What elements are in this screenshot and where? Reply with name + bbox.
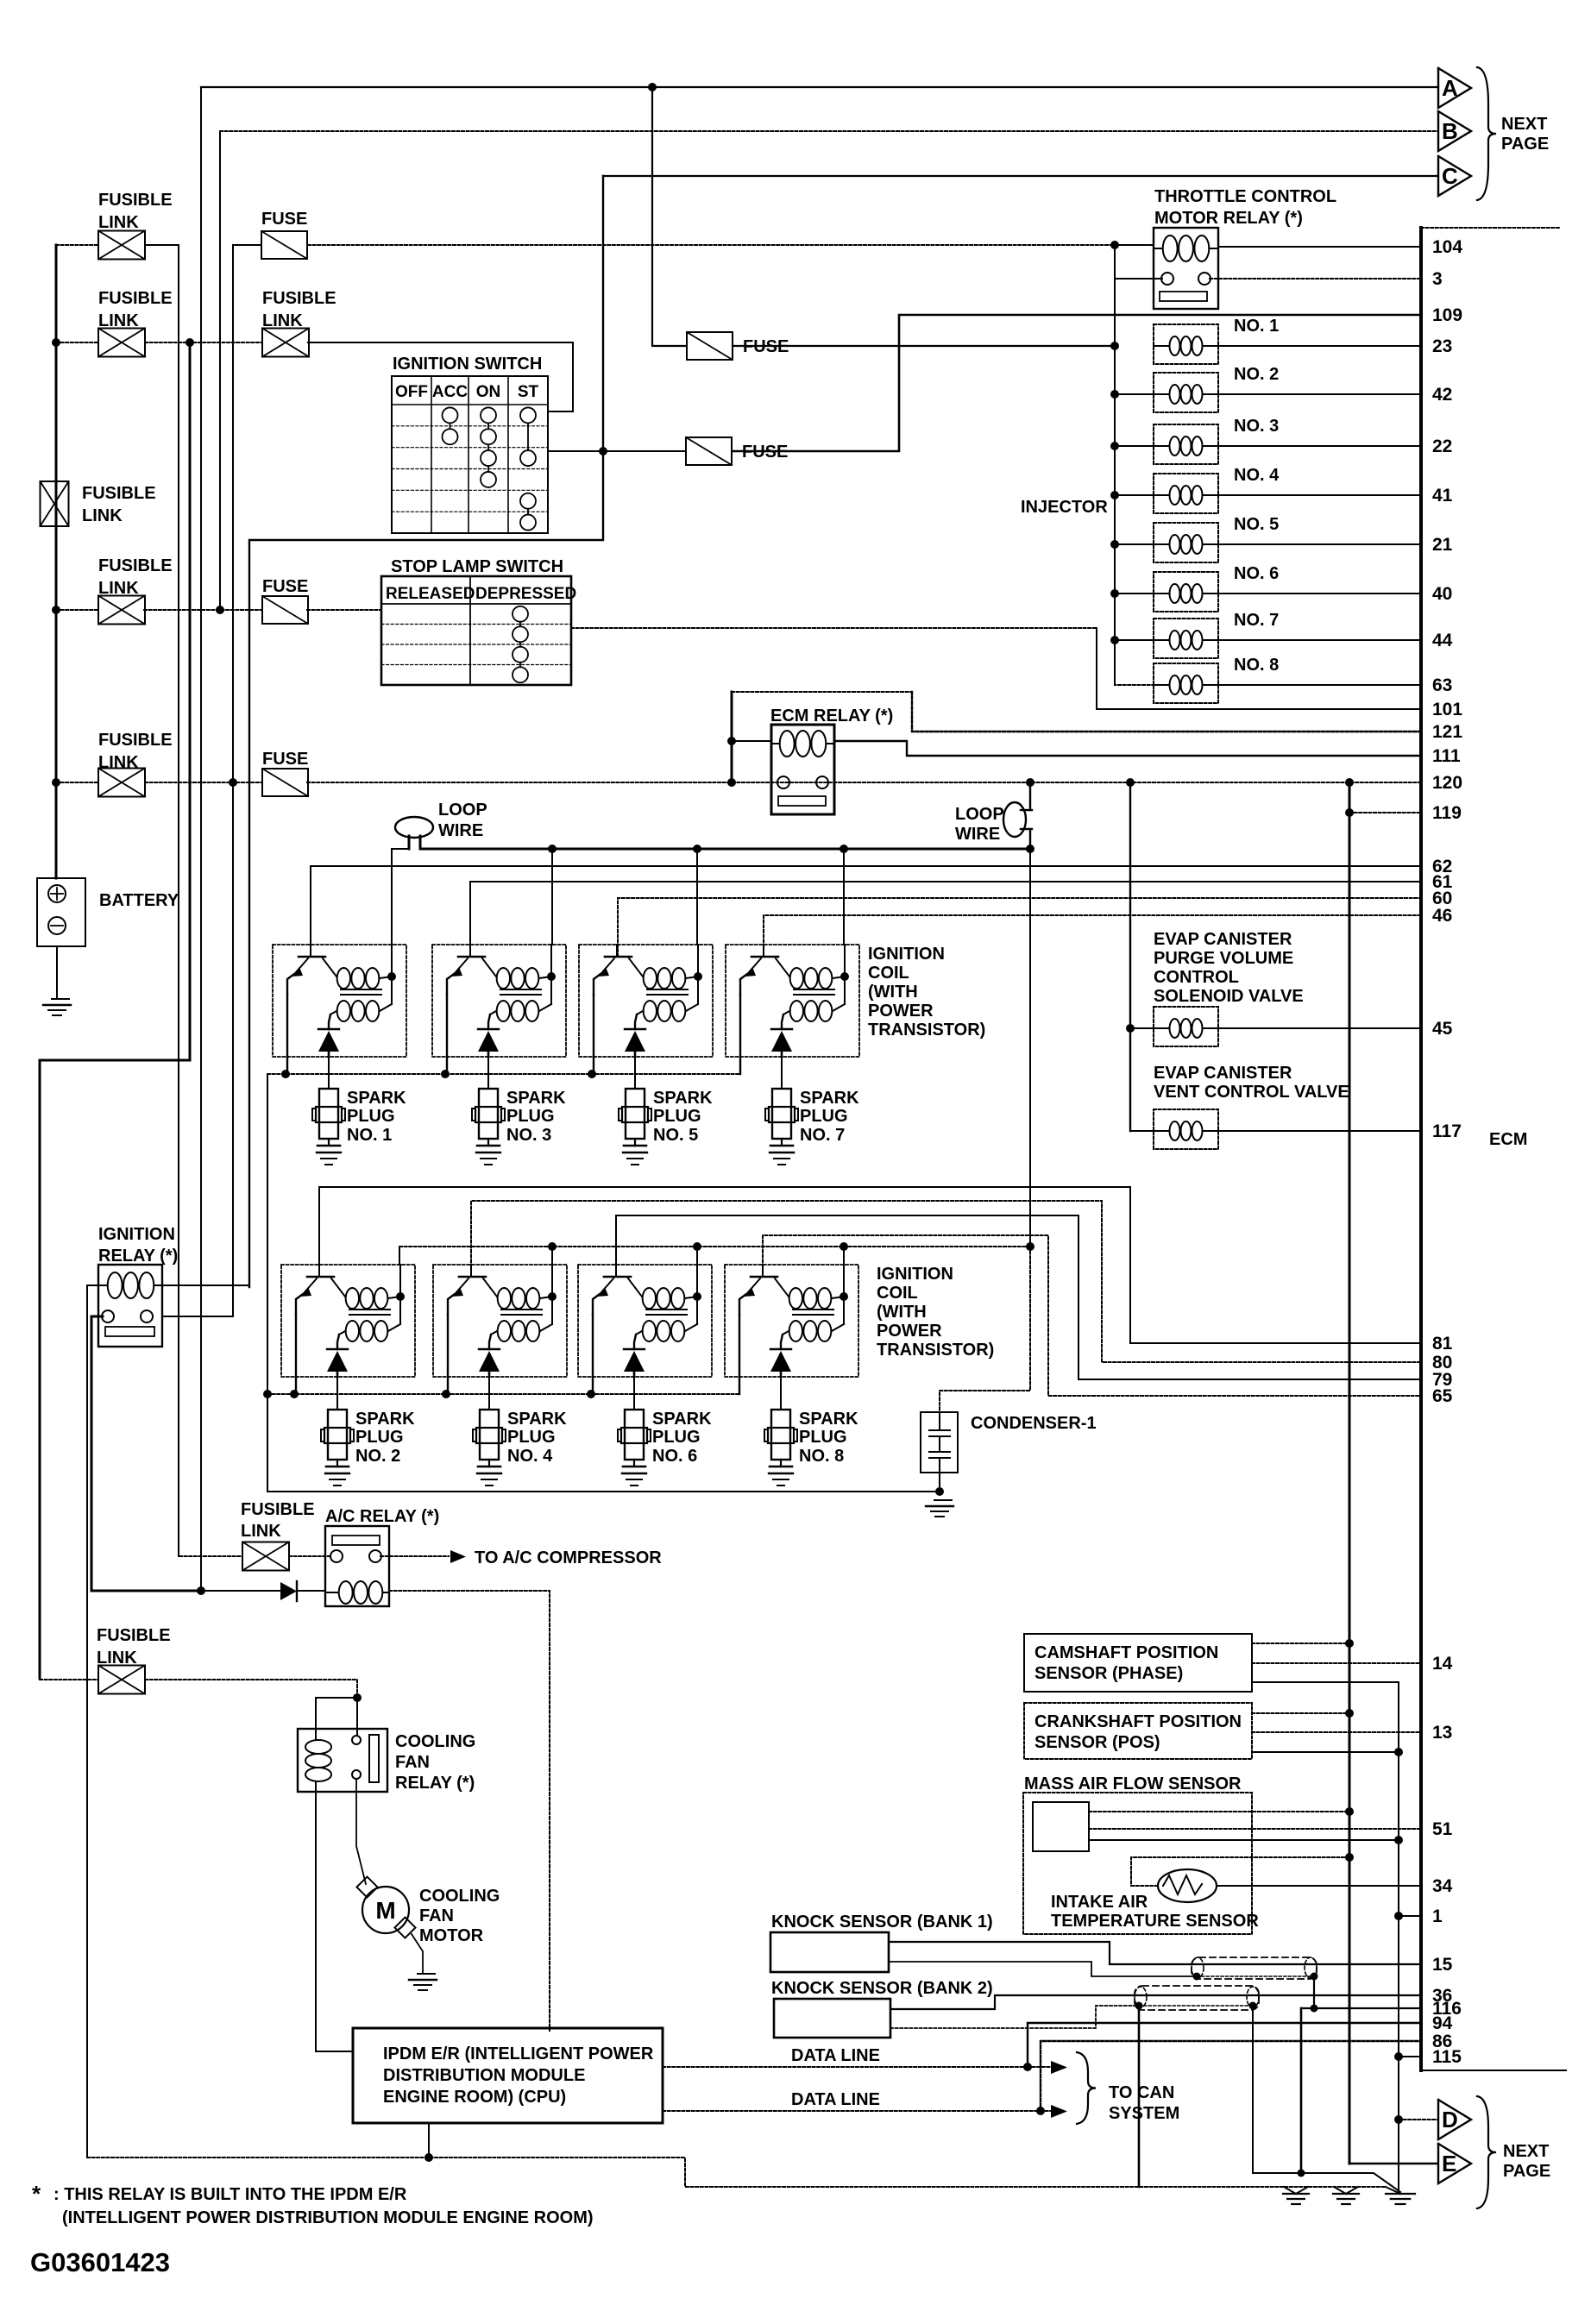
shield S2 <box>1135 1986 1259 2010</box>
svg-text:IGNITION: IGNITION <box>868 945 945 964</box>
spark plug NO. 8 <box>771 1410 790 1460</box>
spark plug NO. 5 <box>626 1089 645 1139</box>
svg-text:SENSOR (PHASE): SENSOR (PHASE) <box>1034 1664 1183 1683</box>
wire D arrow feed <box>1399 2119 1438 2120</box>
wire F1 output row y284 to injector bus <box>308 244 1115 246</box>
svg-text:IGNITION: IGNITION <box>98 1225 175 1244</box>
wire crankshaft signal to ECM pin 13 <box>1252 1731 1421 1733</box>
fuse F3 <box>686 437 732 465</box>
wire K2 coil-left loop to ECM pin 121 <box>731 692 733 741</box>
svg-text:IPDM E/R (INTELLIGENT POWER: IPDM E/R (INTELLIGENT POWER <box>383 2044 654 2063</box>
ignition coil IC4 (with power transistor) <box>433 1265 567 1377</box>
svg-text:PLUG: PLUG <box>506 1107 555 1126</box>
wire injector NO. 3 to ECM pin 22 <box>1218 445 1421 447</box>
wire ECM pin 80 to coil IC4 base <box>471 1201 1421 1362</box>
wire camshaft ground to sensor-ground bus <box>1252 1682 1399 2194</box>
wire A/C relay contact to compressor arrow <box>380 1555 449 1557</box>
wire FL5 to ignition switch input <box>308 342 573 411</box>
ground below battery <box>52 998 69 1000</box>
svg-text:14: 14 <box>1432 1654 1453 1674</box>
wire loop W2 drop x1194 to row2 supply bus <box>1029 849 1031 1247</box>
wire knock2 signal to ECM pin 36 <box>890 1995 1421 2009</box>
wire EVAP purge to ECM pin 45 <box>1218 1027 1421 1029</box>
svg-text:A/C RELAY (*): A/C RELAY (*) <box>325 1507 439 1526</box>
svg-text:NO. 1: NO. 1 <box>347 1126 392 1145</box>
ignition coil IC8 (with power transistor) <box>725 1265 858 1377</box>
next-page arrow E <box>1438 2144 1471 2183</box>
wire crankshaft ground <box>1252 1751 1399 1753</box>
wire ECM pin 116 line <box>1301 2007 1421 2009</box>
spark plug NO. 1 <box>319 1089 338 1139</box>
ignition coil IC3 (with power transistor) <box>432 945 566 1057</box>
shield S1 <box>1192 1957 1317 1979</box>
wire shield1 drain to pin116 line <box>1313 1976 1315 2008</box>
svg-text:NO. 5: NO. 5 <box>653 1126 698 1145</box>
svg-text:B: B <box>1442 118 1458 144</box>
wire thick battery branch x220 down to y1229 then left to x46 <box>40 342 190 1678</box>
CAN arrow 2 <box>1051 2105 1067 2118</box>
wire pin116 shield drain down to ground line <box>1300 2008 1303 2173</box>
svg-text:PLUG: PLUG <box>507 1428 556 1447</box>
svg-text:*: * <box>32 2181 41 2207</box>
wire FL7 to cooling fan relay <box>145 1680 357 1698</box>
svg-text:KNOCK SENSOR (BANK 1): KNOCK SENSOR (BANK 1) <box>771 1913 993 1931</box>
svg-text:BATTERY: BATTERY <box>99 891 179 910</box>
cooling fan relay K5 <box>298 1729 387 1792</box>
wire net-A top line to arrow A <box>201 86 1438 88</box>
svg-text:23: 23 <box>1432 336 1452 356</box>
wire ECM pin 60 to coil IC5 base <box>618 898 1421 957</box>
svg-text:NO. 2: NO. 2 <box>355 1447 400 1466</box>
brace next page (bottom) <box>1477 2096 1496 2208</box>
svg-text:SPARK: SPARK <box>347 1089 406 1108</box>
svg-text:TRANSISTOR): TRANSISTOR) <box>877 1341 994 1360</box>
spark plug NO. 3 <box>479 1089 498 1139</box>
svg-text:NO. 2: NO. 2 <box>1234 365 1279 384</box>
fuse F2 <box>687 332 733 360</box>
wire knock1 signal to ECM pin 15 <box>889 1942 1421 1964</box>
svg-text:SPARK: SPARK <box>653 1089 713 1108</box>
wire EVAP vent to ECM pin 117 <box>1218 1130 1421 1132</box>
wire A/C relay coil to IPDM <box>389 1591 550 2031</box>
svg-text:115: 115 <box>1432 2047 1462 2067</box>
ECM connector outline <box>1419 228 1423 2070</box>
wire battery negative to ground <box>56 946 58 999</box>
svg-text:104: 104 <box>1432 237 1462 257</box>
spark plug NO. 6 <box>625 1410 644 1460</box>
svg-text:101: 101 <box>1432 700 1462 719</box>
svg-text:DEPRESSED: DEPRESSED <box>475 585 576 603</box>
wire to ECM pin 119 <box>1349 812 1421 813</box>
ground G2 (sensor shield ground) <box>1334 2187 1346 2194</box>
wire coil IC8 to spark plug NO. 8 <box>780 1377 782 1410</box>
IPDM E/R box <box>353 2028 663 2123</box>
wire stop lamp switch output to ECM pin 101 <box>571 627 1097 629</box>
svg-text:NO. 5: NO. 5 <box>1234 515 1279 534</box>
svg-text:NO. 4: NO. 4 <box>507 1447 553 1466</box>
svg-text:IGNITION SWITCH: IGNITION SWITCH <box>393 355 542 374</box>
svg-text:1: 1 <box>1432 1906 1443 1926</box>
svg-text:SPARK: SPARK <box>506 1089 566 1108</box>
ignition coil IC6 (with power transistor) <box>578 1265 712 1377</box>
svg-text:EVAP CANISTER: EVAP CANISTER <box>1154 1064 1292 1083</box>
wire K2 coil-right to ECM pin 111 <box>834 741 1421 756</box>
wire IPDM data line 1 (CAN-H) <box>663 2066 1028 2068</box>
svg-text:TRANSISTOR): TRANSISTOR) <box>868 1021 985 1040</box>
wire K1 contact to ECM pin 3 <box>1210 278 1421 280</box>
svg-text:ON: ON <box>476 383 501 401</box>
next-page arrow B <box>1438 111 1471 151</box>
svg-text:FUSIBLE: FUSIBLE <box>262 289 336 308</box>
wire cooling fan relay contact to motor <box>356 1779 366 1884</box>
wire knock1 return to shield <box>889 1962 1197 1976</box>
svg-text:NO. 6: NO. 6 <box>652 1447 697 1466</box>
svg-text:FUSIBLE: FUSIBLE <box>97 1626 171 1645</box>
svg-text:RELAY (*): RELAY (*) <box>395 1774 475 1793</box>
svg-text:COOLING: COOLING <box>419 1887 500 1906</box>
wire net-A vertical x233 <box>200 87 202 1591</box>
svg-text:CONTROL: CONTROL <box>1154 968 1239 987</box>
svg-text:PLUG: PLUG <box>652 1428 701 1447</box>
wire data line 1 riser to ECM pin 94 <box>1028 2023 1421 2067</box>
svg-text:DATA LINE: DATA LINE <box>791 2090 880 2109</box>
wire coil ground line y1729 <box>267 1491 940 1492</box>
svg-text:ST: ST <box>518 383 539 401</box>
svg-text:FUSIBLE: FUSIBLE <box>98 556 173 575</box>
spark plug NO. 2 <box>328 1410 347 1460</box>
brace next page (top) <box>1477 67 1496 200</box>
wire K1 contact left feed <box>1115 278 1162 280</box>
spark plug NO. 7 <box>772 1089 791 1139</box>
wire camshaft supply <box>1252 1643 1349 1644</box>
svg-text:FUSE: FUSE <box>262 577 308 596</box>
EVAP canister vent control valve <box>1154 1109 1218 1149</box>
wire ignition coil supply bus row1 y984 <box>420 848 1030 851</box>
wire crankshaft supply <box>1252 1712 1349 1714</box>
svg-text:FUSIBLE: FUSIBLE <box>98 289 173 308</box>
next-page arrow C <box>1438 156 1471 196</box>
wire injector NO. 6 to ECM pin 40 <box>1218 593 1421 594</box>
svg-text:TEMPERATURE SENSOR: TEMPERATURE SENSOR <box>1051 1912 1259 1931</box>
svg-text:COOLING: COOLING <box>395 1732 475 1751</box>
svg-text:NO. 1: NO. 1 <box>1234 317 1279 336</box>
wire bottom ground rail <box>87 2158 1386 2187</box>
svg-text:121: 121 <box>1432 722 1462 742</box>
wire supply bus row2 y1445 <box>399 1246 1030 1247</box>
svg-text:NO. 3: NO. 3 <box>506 1126 551 1145</box>
svg-text:RELAY (*): RELAY (*) <box>98 1247 178 1266</box>
svg-text:NEXT: NEXT <box>1501 115 1547 134</box>
wire cooling fan relay coil to IPDM left edge <box>316 1792 353 2051</box>
svg-text:PLUG: PLUG <box>653 1107 701 1126</box>
svg-text:NO. 6: NO. 6 <box>1234 564 1279 583</box>
svg-text:EVAP CANISTER: EVAP CANISTER <box>1154 930 1292 949</box>
svg-text:NO. 4: NO. 4 <box>1234 466 1280 485</box>
svg-text:34: 34 <box>1432 1876 1453 1896</box>
svg-text:3: 3 <box>1432 269 1443 289</box>
svg-text:FUSE: FUSE <box>261 210 307 229</box>
svg-text:LINK: LINK <box>98 753 139 772</box>
svg-text:THROTTLE CONTROL: THROTTLE CONTROL <box>1154 187 1336 206</box>
svg-text:TO A/C COMPRESSOR: TO A/C COMPRESSOR <box>475 1548 662 1567</box>
svg-text:15: 15 <box>1432 1955 1453 1975</box>
wire IAT supply loop <box>1131 1857 1349 1886</box>
diode D1 <box>201 1590 280 1592</box>
ignition coil IC2 (with power transistor) <box>281 1265 415 1377</box>
wire knock2 return to shield2 <box>890 2006 1139 2028</box>
CAN arrow 1 <box>1051 2061 1067 2074</box>
wire injector NO. 1 to ECM pin 23 <box>1218 345 1421 347</box>
svg-text:G03601423: G03601423 <box>30 2247 170 2277</box>
wire camshaft signal to ECM pin 14 <box>1252 1662 1421 1664</box>
svg-text:51: 51 <box>1432 1819 1453 1839</box>
wire ignition relay contact left to A/C relay coil <box>91 1316 201 1591</box>
svg-text:LOOP: LOOP <box>438 801 487 820</box>
wire ECM pin 81 to coil IC2 base <box>319 1187 1421 1343</box>
wire ECM pin 46 to coil IC7 base <box>764 915 1421 957</box>
svg-text:NO. 8: NO. 8 <box>1234 656 1279 675</box>
wire coil supply drops row2 <box>399 1247 400 1265</box>
svg-text:WIRE: WIRE <box>438 821 483 840</box>
wire data line 2 riser to ECM pin 86 <box>1041 2041 1421 2111</box>
wire net-B top line to arrow B <box>220 130 1438 132</box>
wire net-B vertical x255 <box>219 131 221 610</box>
wire FL3 output row y707 <box>144 609 262 611</box>
svg-text:INTAKE AIR: INTAKE AIR <box>1051 1893 1148 1912</box>
svg-text:(INTELLIGENT POWER DISTRIBUTIO: (INTELLIGENT POWER DISTRIBUTION MODULE E… <box>62 2208 594 2227</box>
svg-text:94: 94 <box>1432 2013 1453 2033</box>
svg-text:SPARK: SPARK <box>652 1410 712 1429</box>
wire IAT signal to ECM pin 34 <box>1217 1885 1421 1887</box>
ground below motor <box>418 1973 435 1975</box>
svg-text:PLUG: PLUG <box>800 1107 848 1126</box>
svg-text:PLUG: PLUG <box>799 1428 847 1447</box>
svg-text:SPARK: SPARK <box>799 1410 858 1429</box>
svg-text:CAMSHAFT POSITION: CAMSHAFT POSITION <box>1034 1643 1218 1662</box>
wire ECM pin 115 to sensor ground bus <box>1399 2056 1421 2057</box>
svg-text:SENSOR (POS): SENSOR (POS) <box>1034 1733 1160 1752</box>
wire net-A drop x756 to fuse F2 <box>652 87 687 346</box>
ground below condenser <box>934 1499 952 1501</box>
injector NO. 4 <box>1154 474 1218 513</box>
svg-text:POWER: POWER <box>877 1322 942 1341</box>
svg-text:TO CAN: TO CAN <box>1109 2083 1174 2102</box>
next-page arrow D <box>1438 2100 1471 2139</box>
svg-text:FUSIBLE: FUSIBLE <box>82 484 156 503</box>
wire battery positive bus (left vertical) <box>55 245 58 878</box>
svg-text:41: 41 <box>1432 486 1453 506</box>
wire injector NO. 4 to ECM pin 41 <box>1218 494 1421 496</box>
condenser C1 <box>921 1412 958 1473</box>
wire E arrow feed from sensor bus x1564 <box>1349 2163 1437 2164</box>
wire ignition relay contact right feed <box>162 1316 233 1317</box>
svg-text:63: 63 <box>1432 675 1452 695</box>
wire ECM pin 1 to sensor ground bus <box>1399 1915 1421 1917</box>
EVAP canister purge volume control solenoid valve <box>1154 1007 1218 1046</box>
wire ignition switch output to fuse F3 <box>548 450 686 452</box>
svg-text:ECM RELAY (*): ECM RELAY (*) <box>770 707 893 725</box>
svg-text:46: 46 <box>1432 906 1452 926</box>
svg-text:CRANKSHAFT POSITION: CRANKSHAFT POSITION <box>1034 1712 1242 1731</box>
svg-text:SYSTEM: SYSTEM <box>1109 2104 1179 2123</box>
wire shield2 left drain down to ground rail <box>1138 2006 1141 2187</box>
wire net-C top line to arrow C <box>603 175 1438 177</box>
wire ignition switch ON branch x699 down to ignition relay coil feed <box>249 176 603 1287</box>
svg-text:DISTRIBUTION MODULE: DISTRIBUTION MODULE <box>383 2066 585 2085</box>
wire coil IC1 to spark plug NO. 1 <box>328 1057 330 1089</box>
wire ignition relay coil right feed <box>162 1284 249 1286</box>
wire coil IC7 to spark plug NO. 7 <box>781 1057 783 1089</box>
svg-text:COIL: COIL <box>868 964 909 983</box>
svg-text:A: A <box>1442 75 1458 101</box>
svg-text:NO. 7: NO. 7 <box>800 1126 845 1145</box>
svg-text:42: 42 <box>1432 385 1452 405</box>
svg-text:FUSIBLE: FUSIBLE <box>98 191 173 210</box>
wire coil IC3 to spark plug NO. 3 <box>487 1057 489 1089</box>
ignition coil IC5 (with power transistor) <box>579 945 713 1057</box>
next-page arrow A <box>1438 68 1471 108</box>
svg-text:13: 13 <box>1432 1723 1452 1743</box>
intake air temperature sensor RT1 <box>1158 1869 1217 1902</box>
wire ignition relay coil left down to bottom rail <box>87 1285 98 2158</box>
svg-text:44: 44 <box>1432 631 1453 650</box>
wire FL2 output row y397 <box>145 342 262 343</box>
wire row2 supply to condenser-1 <box>940 1247 1030 1412</box>
wire injector NO. 7 to ECM pin 44 <box>1218 639 1421 641</box>
svg-text:POWER: POWER <box>868 1002 934 1021</box>
svg-text:ECM: ECM <box>1489 1130 1527 1149</box>
svg-text:NO. 8: NO. 8 <box>799 1447 844 1466</box>
svg-text:22: 22 <box>1432 437 1452 456</box>
wire ECM pin 61 to coil IC3 base <box>470 882 1421 957</box>
svg-text:SPARK: SPARK <box>355 1410 415 1429</box>
crankshaft position sensor <box>1024 1703 1252 1759</box>
svg-text:109: 109 <box>1432 305 1462 325</box>
svg-text:VENT CONTROL VALVE: VENT CONTROL VALVE <box>1154 1083 1349 1102</box>
battery BAT <box>37 878 85 946</box>
wire IPDM data line 2 (CAN-L) <box>663 2110 1041 2112</box>
svg-text:WIRE: WIRE <box>955 825 1000 844</box>
wire F1 feed from ignition relay vertical x270 <box>233 245 261 1316</box>
svg-text:C: C <box>1442 163 1458 189</box>
injector NO. 5 <box>1154 523 1218 562</box>
svg-text:DATA LINE: DATA LINE <box>791 2046 880 2065</box>
ignition coil IC1 (with power transistor) <box>273 945 406 1057</box>
wire K1 coil to ECM pin 104 <box>1218 246 1421 248</box>
svg-text:IGNITION: IGNITION <box>877 1265 953 1284</box>
svg-text:MOTOR RELAY (*): MOTOR RELAY (*) <box>1154 209 1303 228</box>
wire motor to ground <box>412 1934 423 1974</box>
wire supply vertical to EVAP bus x1310 <box>1129 782 1131 1131</box>
svg-text:E: E <box>1442 2151 1456 2176</box>
wire injector NO. 8 to ECM pin 63 <box>1218 684 1421 686</box>
spark plug NO. 4 <box>480 1410 499 1460</box>
wire shield2 right drain to ground <box>1253 2006 1400 2192</box>
svg-text:65: 65 <box>1432 1386 1453 1406</box>
wire FL4 output row y907 <box>145 782 262 783</box>
svg-text:PLUG: PLUG <box>347 1107 395 1126</box>
svg-text:(WITH: (WITH <box>868 983 918 1002</box>
svg-text:SOLENOID VALVE: SOLENOID VALVE <box>1154 987 1304 1006</box>
injector NO. 8 <box>1154 663 1218 703</box>
wire injector bus stub to NO. 8 <box>1115 640 1154 685</box>
wire emitter bus row2 y1616 <box>267 1393 738 1395</box>
svg-text:40: 40 <box>1432 584 1452 604</box>
wire coil IC6 to spark plug NO. 6 <box>633 1377 635 1410</box>
wire coil IC4 to spark plug NO. 4 <box>488 1377 490 1410</box>
wire injector NO. 2 to ECM pin 42 <box>1218 393 1421 395</box>
wire K1 coil left feed <box>1115 244 1154 246</box>
svg-text:45: 45 <box>1432 1019 1453 1039</box>
svg-text:FUSIBLE: FUSIBLE <box>241 1500 315 1519</box>
svg-text:D: D <box>1442 2107 1458 2132</box>
wire MAF ground <box>1089 1839 1399 1841</box>
wire injector bus x1292 <box>1114 245 1116 685</box>
ground G1 (shield ground) <box>1284 2187 1296 2194</box>
svg-text:FUSIBLE: FUSIBLE <box>98 731 173 750</box>
camshaft position sensor <box>1024 1634 1252 1692</box>
svg-text:119: 119 <box>1432 803 1462 823</box>
svg-text:81: 81 <box>1432 1334 1453 1354</box>
svg-text:ACC: ACC <box>432 383 468 401</box>
svg-text:NO. 7: NO. 7 <box>1234 611 1279 630</box>
fusible link FLV (vertical, battery) <box>41 481 69 526</box>
svg-text:PURGE VOLUME: PURGE VOLUME <box>1154 949 1293 968</box>
svg-text:117: 117 <box>1432 1121 1462 1141</box>
wire emitter bus row1 y1245 <box>267 1073 739 1075</box>
injector NO. 6 <box>1154 572 1218 612</box>
svg-text:21: 21 <box>1432 535 1453 555</box>
ground G3 (ECM sensor ground) <box>1386 2187 1400 2194</box>
wire ECM pin 65 to coil IC8 base <box>763 1235 1421 1396</box>
wire injector NO. 5 to ECM pin 21 <box>1218 543 1421 545</box>
svg-text:OFF: OFF <box>395 383 428 401</box>
svg-text:STOP LAMP SWITCH: STOP LAMP SWITCH <box>391 557 563 576</box>
wire coil IC2 to spark plug NO. 2 <box>336 1377 338 1410</box>
svg-text:111: 111 <box>1432 746 1461 766</box>
wire F3 output to ECM pin 109 <box>733 315 1421 451</box>
injector NO. 2 <box>1154 373 1218 412</box>
wire condenser to ground line y1729 <box>939 1473 940 1492</box>
svg-text:RELEASED: RELEASED <box>386 585 475 603</box>
wire FL1 output to net-C vertical <box>145 245 179 1556</box>
wire MAF supply <box>1089 1811 1349 1812</box>
wire IPDM bottom to ground rail <box>428 2123 430 2158</box>
svg-text:COIL: COIL <box>877 1284 918 1303</box>
svg-text:NO. 3: NO. 3 <box>1234 417 1279 436</box>
injector NO. 1 <box>1154 324 1218 364</box>
svg-text:ENGINE ROOM) (CPU): ENGINE ROOM) (CPU) <box>383 2088 566 2107</box>
svg-text:MASS AIR FLOW SENSOR: MASS AIR FLOW SENSOR <box>1024 1774 1242 1793</box>
svg-text:CONDENSER-1: CONDENSER-1 <box>971 1414 1097 1433</box>
svg-text:LINK: LINK <box>241 1522 281 1541</box>
svg-text:M: M <box>375 1897 395 1924</box>
svg-text:KNOCK SENSOR (BANK 2): KNOCK SENSOR (BANK 2) <box>771 1979 993 1998</box>
cooling fan motor M1 <box>356 1876 377 1897</box>
svg-text:LINK: LINK <box>82 506 123 525</box>
svg-text:: THIS RELAY IS BUILT INTO TH: : THIS RELAY IS BUILT INTO THE IPDM E/R <box>53 2185 407 2204</box>
svg-text:FAN: FAN <box>395 1753 430 1772</box>
svg-text:(WITH: (WITH <box>877 1303 927 1322</box>
svg-text:FUSE: FUSE <box>262 750 308 769</box>
svg-text:NEXT: NEXT <box>1503 2142 1549 2161</box>
wire MAF signal to ECM pin 51 <box>1089 1828 1421 1830</box>
wire coil IC5 to spark plug NO. 5 <box>634 1057 636 1089</box>
svg-text:PLUG: PLUG <box>355 1428 404 1447</box>
svg-text:FAN: FAN <box>419 1906 454 1925</box>
wire F4 to stop lamp switch <box>307 609 381 611</box>
svg-text:INJECTOR: INJECTOR <box>1021 498 1108 517</box>
